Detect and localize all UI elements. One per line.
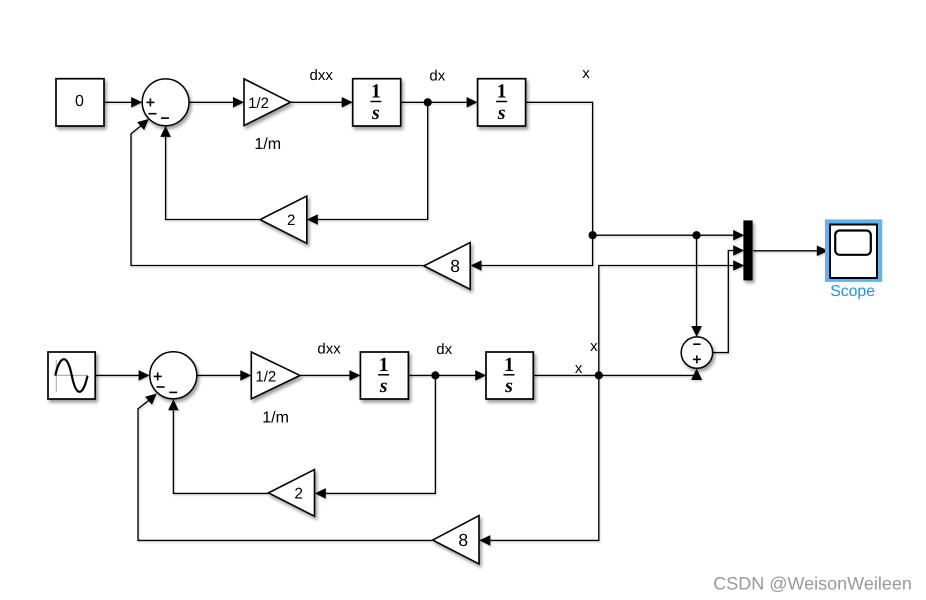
svg-text:x: x [590,338,598,355]
svg-text:dxx: dxx [310,67,334,84]
svg-text:CSDN @WeisonWeileen: CSDN @WeisonWeileen [713,573,912,593]
svg-text:dxx: dxx [317,340,341,357]
svg-text:dx: dx [429,67,445,84]
svg-text:dx: dx [436,341,452,358]
svg-text:1: 1 [497,81,507,103]
svg-text:x: x [582,65,590,82]
svg-text:x: x [575,360,583,377]
svg-text:1/2: 1/2 [248,95,269,112]
svg-text:1: 1 [504,354,514,376]
svg-text:8: 8 [458,530,468,550]
svg-text:1/2: 1/2 [255,368,276,385]
svg-text:Scope: Scope [830,283,875,300]
svg-text:2: 2 [294,486,303,503]
svg-text:1: 1 [371,81,381,103]
svg-text:0: 0 [75,93,84,110]
svg-text:2: 2 [287,212,295,229]
svg-text:1/m: 1/m [254,136,281,153]
svg-text:s: s [504,375,513,397]
svg-text:s: s [379,375,388,397]
svg-text:1: 1 [379,354,389,376]
svg-text:1/m: 1/m [262,410,289,427]
svg-text:s: s [497,102,506,124]
svg-text:8: 8 [450,256,460,276]
svg-text:s: s [371,102,380,124]
